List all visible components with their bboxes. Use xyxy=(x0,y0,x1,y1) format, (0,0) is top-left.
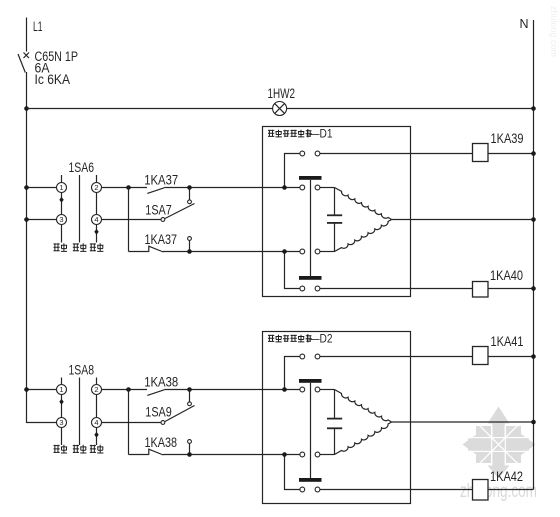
wire 1KA38 to box xyxy=(164,389,300,391)
relay coil 1KA41 xyxy=(473,347,489,365)
contact 1KA38 NC xyxy=(149,449,164,456)
terminal pair row2 xyxy=(300,185,305,190)
wire L1 bus top xyxy=(26,18,28,52)
junction x189.6 row 187.5 xyxy=(187,185,192,190)
wire L1 bus xyxy=(26,72,28,423)
junction row2 left xyxy=(282,387,287,392)
svg-text:3: 3 xyxy=(59,418,63,427)
svg-text:4: 4 xyxy=(94,418,98,427)
actuator stem xyxy=(310,180,312,276)
wire contact4 to 1SA7 xyxy=(102,219,161,221)
terminal pair row3 xyxy=(300,249,305,254)
svg-text:N: N xyxy=(520,17,529,31)
actuator bottom bar xyxy=(299,276,322,280)
junction x189.6 row 389.5 xyxy=(187,387,192,392)
wire row4 left rise xyxy=(285,252,300,289)
wire to NC contact xyxy=(129,251,149,253)
capacitor C xyxy=(327,188,342,252)
junction N lamp line xyxy=(531,106,536,111)
junction L1 lamp line xyxy=(24,106,29,111)
wire 1KA41 to N xyxy=(488,356,534,358)
svg-text:3: 3 xyxy=(59,215,63,224)
wire terminal to line xyxy=(189,444,191,455)
svg-text:4: 4 xyxy=(94,215,98,224)
label box title xyxy=(268,127,333,141)
svg-text:1SA9: 1SA9 xyxy=(145,404,172,420)
junction bus row 389.5 xyxy=(24,387,29,392)
breaker QF cross terminal xyxy=(24,53,30,59)
wire N bus xyxy=(533,20,535,490)
svg-text:1: 1 xyxy=(59,385,63,394)
junction bus row 219.5 xyxy=(24,217,29,222)
label box title xyxy=(268,332,333,346)
svg-text:I—D1: I—D1 xyxy=(307,127,333,141)
actuator top bar xyxy=(299,379,322,383)
svg-text:1KA40: 1KA40 xyxy=(490,267,523,283)
motor winding lower xyxy=(335,422,392,455)
selector switch 1SA6 xyxy=(57,159,102,243)
svg-text:Ic 6KA: Ic 6KA xyxy=(35,72,71,87)
wire bus to contact 3 xyxy=(27,219,57,221)
terminal pair row1 xyxy=(300,354,305,359)
svg-text:1KA37: 1KA37 xyxy=(145,231,178,247)
junction N 1KA40 xyxy=(531,286,536,291)
wire motor common to N xyxy=(392,421,534,423)
wire contact2 to 1KA37 xyxy=(102,187,148,189)
motor winding upper xyxy=(335,390,392,423)
breaker QF blade xyxy=(18,54,25,73)
svg-text:1KA41: 1KA41 xyxy=(491,333,524,349)
junction NC line xyxy=(187,249,192,254)
wire row2 right to motor xyxy=(320,389,335,391)
wire junction down xyxy=(128,390,130,455)
terminal pair row4 xyxy=(300,286,305,291)
motor winding upper xyxy=(335,188,392,220)
wire lamp line xyxy=(27,108,534,110)
wire row1 left drop xyxy=(285,154,300,188)
terminal circle above NC xyxy=(188,237,192,241)
actuator bottom bar xyxy=(299,478,322,482)
relay coil 1KA42 xyxy=(473,480,489,501)
svg-text:1KA38: 1KA38 xyxy=(144,374,178,390)
contact 1KA38 NO xyxy=(147,390,164,396)
svg-text:1: 1 xyxy=(59,183,63,192)
wire bus to contact 1 xyxy=(27,187,57,189)
label auto/stop/manual xyxy=(54,445,104,453)
svg-text:1KA38: 1KA38 xyxy=(145,434,178,450)
terminal pair row2 xyxy=(300,387,305,392)
actuator top bar xyxy=(299,176,322,180)
wire terminal to line xyxy=(189,241,191,252)
junction N 1KA39 xyxy=(531,151,536,156)
svg-text:2: 2 xyxy=(94,385,98,394)
valve box D2 xyxy=(263,332,411,504)
terminal pair row3 xyxy=(300,452,305,457)
valve box D1 xyxy=(263,127,411,297)
wire junction down xyxy=(128,188,130,252)
watermark logo pinwheel xyxy=(463,407,536,479)
wire bus to contact 3 xyxy=(27,422,57,424)
junction N common xyxy=(531,217,536,222)
svg-text:1KA39: 1KA39 xyxy=(491,130,524,146)
wire row1 left drop xyxy=(285,357,300,390)
capacitor C xyxy=(327,390,342,455)
wire bus to contact 1 xyxy=(27,389,57,391)
svg-text:zhulong.com: zhulong.com xyxy=(549,6,559,57)
svg-text:1SA6: 1SA6 xyxy=(69,159,95,175)
selector switch 1SA8 xyxy=(57,361,102,445)
wire 1KA37 to box xyxy=(164,187,300,189)
wire row1 to relay 1KA39 xyxy=(320,153,473,155)
actuator stem xyxy=(310,383,312,478)
svg-text:L1: L1 xyxy=(33,18,43,34)
svg-text:1KA42: 1KA42 xyxy=(490,468,523,484)
relay coil 1KA40 xyxy=(473,282,489,298)
wire 1KA42 to N xyxy=(488,489,534,491)
junction N common xyxy=(531,420,536,425)
terminal circle above NC xyxy=(188,440,192,444)
contact 1SA9 xyxy=(161,390,195,425)
svg-text:1KA37: 1KA37 xyxy=(144,172,178,188)
wire NC to box xyxy=(163,251,300,253)
junction N 1KA41 xyxy=(531,354,536,359)
wire contact4 to 1SA9 xyxy=(102,422,161,424)
wire 1KA40 to N xyxy=(488,288,534,290)
relay coil 1KA39 xyxy=(473,144,489,162)
wire NC to box xyxy=(163,454,300,456)
wire row3 right to motor xyxy=(320,251,335,253)
svg-text:I—D2: I—D2 xyxy=(307,332,333,346)
contact 1KA37 NC xyxy=(149,246,164,253)
junction NC line xyxy=(187,452,192,457)
wire row2 right to motor xyxy=(320,187,335,189)
svg-text:2: 2 xyxy=(94,183,98,192)
svg-text:1SA8: 1SA8 xyxy=(69,361,95,377)
lamp 1HW2 xyxy=(273,102,287,116)
svg-text:1SA7: 1SA7 xyxy=(145,202,172,218)
contact 1SA7 xyxy=(161,188,195,222)
junction x128 xyxy=(126,185,131,190)
junction x128 xyxy=(126,387,131,392)
contact 1KA37 NO xyxy=(147,188,164,194)
wire motor common to N xyxy=(392,219,534,221)
wire row4 to relay 1KA40 xyxy=(320,288,473,290)
wire row3 right to motor xyxy=(320,454,335,456)
svg-text:1HW2: 1HW2 xyxy=(268,86,296,101)
wire 1KA39 to N xyxy=(488,153,534,155)
terminal pair row4 xyxy=(300,487,305,492)
wire row4 to relay 1KA42 xyxy=(320,489,473,491)
junction row3 left xyxy=(282,249,287,254)
label auto/stop/manual xyxy=(54,243,104,251)
terminal pair row1 xyxy=(300,151,305,156)
wire to NC contact xyxy=(129,454,149,456)
junction bus row 187.5 xyxy=(24,185,29,190)
wire row4 left rise xyxy=(285,455,300,490)
junction row2 left xyxy=(282,185,287,190)
wire contact2 to 1KA38 xyxy=(102,389,148,391)
wire row1 to relay 1KA41 xyxy=(320,356,473,358)
junction row3 left xyxy=(282,452,287,457)
motor winding lower xyxy=(335,220,392,252)
